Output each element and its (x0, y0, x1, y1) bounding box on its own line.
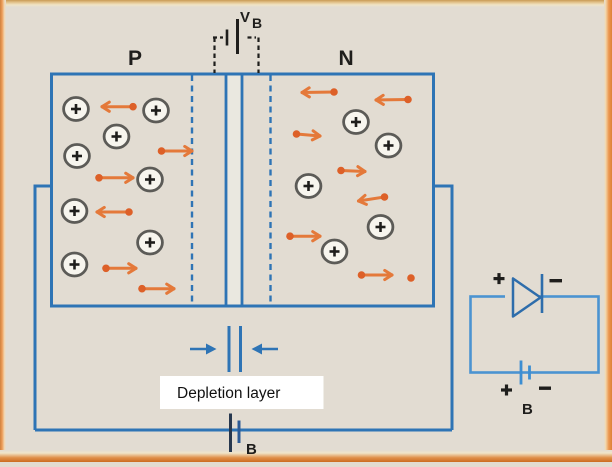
svg-text:B: B (522, 401, 533, 418)
svg-text:N: N (339, 47, 354, 70)
label + at diode anode (494, 273, 505, 284)
arrow N2 (carrier motion arrow) (376, 95, 412, 104)
depletion layer plate right (239, 326, 242, 372)
arrow N6 (carrier motion arrow) (286, 232, 320, 241)
arrow N4 (carrier motion arrow) (337, 167, 365, 176)
arrow N7 (carrier motion arrow) (358, 270, 415, 281)
wire dashed from VB positive terminal (248, 38, 259, 74)
label - at diode cathode (550, 279, 563, 282)
arrow N3 (carrier motion arrow) (293, 130, 320, 140)
frame border right (604, 0, 612, 462)
frame border left (0, 0, 6, 462)
frame border top (0, 0, 612, 7)
depletion layer label box (160, 376, 324, 409)
hole N1 (hole: circle with +) (344, 111, 369, 134)
arrow N1 (carrier motion arrow) (302, 88, 338, 97)
hole P4 (hole: circle with +) (65, 145, 90, 168)
wire bottom with battery B (35, 429, 452, 432)
hole P1 (hole: circle with +) (64, 98, 89, 121)
arrow P3 (carrier motion arrow) (95, 173, 133, 182)
battery B (bottom) (231, 414, 240, 453)
depletion boundary dashed line (P side) (191, 75, 193, 305)
depletion layer plate left (228, 326, 231, 372)
frame border bottom (0, 450, 612, 462)
wire from N side to external circuit (434, 186, 452, 430)
hole P3 (hole: circle with +) (104, 125, 129, 148)
hole P5 (hole: circle with +) (138, 168, 163, 191)
hole P2 (hole: circle with +) (144, 99, 169, 122)
arrow P2 (carrier motion arrow) (158, 146, 192, 155)
arrow pointing left at depletion layer (252, 344, 279, 355)
hole P7 (hole: circle with +) (138, 231, 163, 254)
hole N4 (hole: circle with +) (368, 216, 393, 239)
junction line left (225, 74, 228, 306)
svg-text:V: V (240, 9, 250, 26)
arrow pointing right at depletion layer (190, 344, 217, 355)
depletion boundary dashed line (N side) (269, 75, 271, 305)
junction gap (228, 76, 241, 305)
svg-text:P: P (128, 47, 142, 70)
svg-text:Depletion layer: Depletion layer (177, 385, 280, 402)
label - at battery negative (539, 387, 551, 390)
wire dashed from VB negative terminal (213, 38, 223, 74)
wire from P side to external circuit (35, 186, 52, 430)
label + at battery positive (501, 385, 512, 396)
svg-text:B: B (246, 441, 257, 458)
arrow P6 (carrier motion arrow) (138, 284, 174, 293)
junction line right (241, 74, 244, 306)
diode D (reverse biased) (505, 274, 542, 317)
battery B (equivalent circuit) (521, 361, 530, 385)
arrow P4 (carrier motion arrow) (97, 207, 133, 216)
arrow N5 (carrier motion arrow) (359, 193, 389, 204)
arrow P1 (carrier motion arrow) (102, 102, 137, 111)
hole N5 (hole: circle with +) (322, 240, 347, 263)
hole N2 (hole: circle with +) (376, 134, 401, 157)
equivalent circuit loop (471, 297, 599, 373)
hole P8 (hole: circle with +) (62, 253, 87, 276)
svg-text:B: B (252, 15, 262, 31)
semiconductor block outline (52, 74, 434, 306)
arrow P5 (carrier motion arrow) (102, 264, 136, 273)
hole P6 (hole: circle with +) (62, 200, 87, 223)
hole N3 (hole: circle with +) (296, 175, 321, 198)
battery VB (top, reverse-bias source) (227, 19, 238, 54)
